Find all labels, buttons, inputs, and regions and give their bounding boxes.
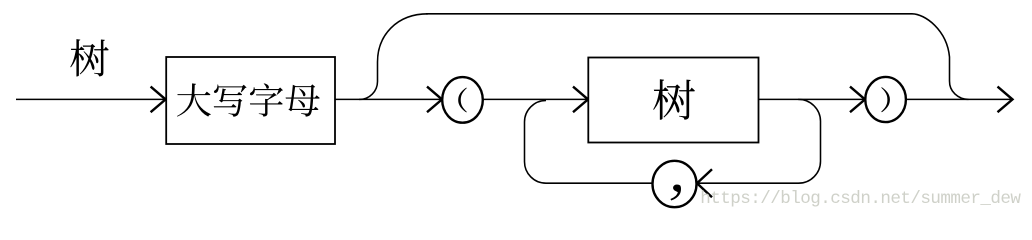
wire: rail from box 树 to ) [759, 98, 866, 100]
wire: rail from ( to box 树 [483, 98, 588, 100]
wire: exit rail [906, 98, 1012, 100]
box 树 (tree) [588, 58, 758, 143]
wire: bypass top rail [426, 13, 912, 15]
wire: loop return up into rail before box 树 [524, 101, 546, 184]
arrowhead into box 大写字母 [151, 87, 166, 113]
text 大写字母 [177, 83, 320, 116]
terminal circle ( [442, 77, 483, 123]
wire: loop bottom rail right segment [697, 182, 799, 184]
terminal circle , [653, 161, 697, 207]
glyph , [670, 185, 681, 201]
wire: bypass descent and merge before final arrow [912, 14, 969, 100]
label 树 (rule name) [70, 39, 108, 76]
wire: rail from box 大写字母 to ( [335, 98, 442, 100]
box 大写字母 (uppercase letter) [166, 57, 335, 144]
glyph ) [881, 87, 890, 112]
wire: loop branch down after box 树 [798, 99, 821, 183]
text 树 [653, 79, 695, 120]
terminal circle ) [865, 77, 906, 122]
glyph ( [458, 88, 467, 113]
arrowhead into box 树 [573, 87, 588, 113]
wire: bypass branch up from rail [359, 14, 428, 100]
arrowhead into ) [850, 87, 865, 113]
wire: loop bottom rail left segment [546, 182, 653, 184]
svg-text:https://blog.csdn.net/summer_d: https://blog.csdn.net/summer_dew [700, 189, 1021, 209]
arrowhead into , (pointing left) [697, 169, 712, 197]
arrowhead into ( [427, 87, 442, 113]
arrowhead: final output arrow [998, 87, 1013, 113]
wire: entry rail [16, 98, 166, 100]
